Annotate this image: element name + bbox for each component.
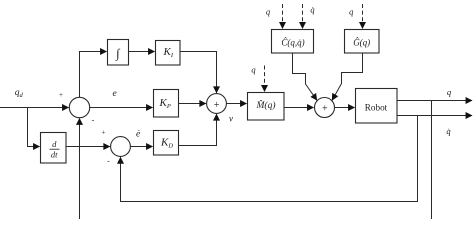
svg-text:M̂(q): M̂(q)	[256, 99, 276, 112]
svg-text:dt: dt	[51, 150, 58, 160]
svg-text:+: +	[214, 100, 220, 111]
svg-text:Ĉ(q,q̇): Ĉ(q,q̇)	[281, 38, 304, 48]
svg-text:Robot: Robot	[365, 103, 388, 113]
svg-text:q: q	[447, 87, 452, 97]
svg-text:Ĝ(q): Ĝ(q)	[353, 38, 370, 48]
svg-text:q̇: q̇	[310, 4, 315, 14]
svg-text:d: d	[52, 139, 57, 149]
svg-text:q: q	[251, 64, 256, 74]
svg-text:-: -	[107, 157, 110, 166]
svg-text:∫: ∫	[115, 46, 120, 61]
svg-text:q̇: q̇	[446, 126, 451, 136]
svg-text:-: -	[92, 116, 95, 125]
svg-text:+: +	[102, 129, 106, 137]
svg-text:q: q	[349, 6, 354, 16]
svg-text:v: v	[229, 114, 233, 124]
svg-text:q: q	[266, 6, 271, 16]
svg-text:ė: ė	[136, 130, 140, 140]
svg-text:+: +	[322, 103, 328, 114]
svg-text:qd: qd	[15, 88, 24, 99]
svg-text:+: +	[59, 91, 63, 99]
svg-text:e: e	[113, 89, 117, 99]
